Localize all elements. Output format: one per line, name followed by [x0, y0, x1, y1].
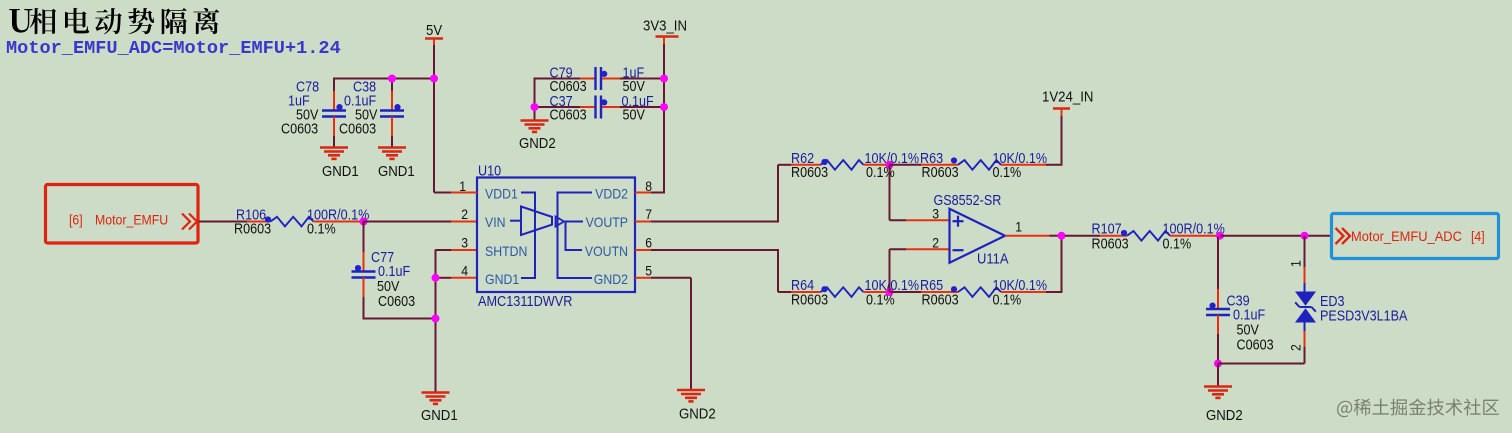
pin R107 right	[1170, 235, 1217, 237]
junction node B	[886, 288, 894, 296]
wire pin3	[436, 249, 452, 251]
power 5V symbol	[425, 22, 443, 48]
pin R64 right	[864, 291, 887, 293]
svg-text:GND2: GND2	[679, 406, 716, 423]
U10 internal amp triangle	[521, 207, 552, 236]
capacitor C79	[596, 67, 608, 90]
wire 3V3 vertical	[663, 44, 665, 193]
wire SHTDN down	[435, 250, 437, 393]
svg-text:3: 3	[461, 236, 468, 251]
resistor R107	[1121, 230, 1170, 241]
resistor R63	[951, 157, 1001, 169]
wire pin5 to gnd	[651, 277, 691, 279]
svg-text:3: 3	[932, 207, 939, 222]
svg-text:0.1%: 0.1%	[307, 222, 336, 238]
svg-text:R0603: R0603	[791, 165, 828, 181]
svg-text:R0603: R0603	[922, 165, 959, 181]
wire nodeA to +	[890, 219, 907, 221]
svg-text:AMC1311DWVR: AMC1311DWVR	[478, 294, 572, 310]
pin U10.1 stub	[451, 192, 477, 194]
svg-text:R107: R107	[1092, 222, 1122, 238]
pin R62 left	[791, 164, 821, 166]
svg-text:GND1: GND1	[322, 163, 359, 180]
pin R64 left	[791, 291, 821, 293]
capacitor C38	[380, 104, 404, 117]
svg-text:5V: 5V	[426, 22, 442, 39]
pin R63 right	[1001, 164, 1046, 166]
svg-text:1V24_IN: 1V24_IN	[1042, 89, 1093, 106]
capacitor C37	[596, 96, 608, 119]
junction C37 left	[531, 103, 539, 111]
svg-text:50V: 50V	[1237, 323, 1260, 339]
diode ED3 PESD3V3L1BA	[1295, 283, 1316, 331]
svg-text:R0603: R0603	[1092, 237, 1129, 253]
svg-text:3V3_IN: 3V3_IN	[643, 18, 687, 35]
U10 internal iso triangle	[556, 217, 565, 227]
svg-text:50V: 50V	[623, 108, 646, 124]
junction C79 right	[660, 75, 668, 83]
svg-text:0.1uF: 0.1uF	[1233, 308, 1265, 324]
resistor R65	[951, 286, 1001, 297]
svg-text:C0603: C0603	[378, 294, 415, 310]
wire out to junction	[1050, 235, 1066, 237]
wire C39 bottom	[1217, 315, 1219, 334]
svg-text:6: 6	[645, 236, 652, 251]
capacitor C78	[322, 104, 346, 117]
svg-text:0.1%: 0.1%	[993, 293, 1022, 309]
svg-text:R0603: R0603	[234, 222, 271, 238]
U10 internal voutp link	[566, 222, 584, 251]
wire R107 to out junction	[1217, 235, 1222, 237]
port Motor_EMFU_ADC	[1332, 214, 1499, 259]
ground GND1 under C38	[378, 148, 406, 159]
pin R65 right	[1001, 291, 1046, 293]
wire 5V vertical	[433, 45, 435, 193]
wire r64 left	[778, 291, 791, 293]
pin R106 right	[314, 221, 363, 223]
capacitor C77	[352, 265, 376, 278]
junction node ED3	[1301, 232, 1309, 240]
junction C39 gnd	[1214, 360, 1222, 368]
svg-text:Motor_EMFU_ADC: Motor_EMFU_ADC	[1351, 228, 1462, 244]
svg-text:VDD2: VDD2	[595, 186, 628, 202]
svg-text:0.1%: 0.1%	[993, 165, 1022, 181]
pin R63 left	[921, 164, 958, 166]
IC U10 body	[477, 178, 635, 293]
svg-text:1: 1	[1289, 260, 1304, 267]
svg-text:0.1uF: 0.1uF	[378, 264, 410, 280]
svg-text:GND1: GND1	[485, 271, 519, 287]
wire pin7 jog	[651, 165, 778, 222]
U10 internal vin dash	[510, 220, 521, 222]
svg-text:U10: U10	[478, 164, 501, 180]
svg-text:C0603: C0603	[281, 122, 318, 138]
wire ED3 top	[1304, 236, 1306, 267]
svg-text:U11A: U11A	[977, 252, 1009, 268]
watermark	[1337, 398, 1499, 417]
svg-text:4: 4	[461, 264, 468, 279]
svg-text:[6]: [6]	[69, 212, 83, 228]
svg-text:GS8552-SR: GS8552-SR	[934, 193, 1002, 209]
wire r63 right	[1046, 164, 1063, 166]
pin U11A.1	[1005, 235, 1050, 237]
port Motor_EMFU	[46, 185, 199, 244]
wire gnd horizontal	[1218, 363, 1305, 365]
wire nodeB up	[889, 249, 891, 292]
wire C38 top	[391, 78, 393, 92]
junction C37 right	[660, 103, 668, 111]
U10 internal right rail	[558, 193, 593, 279]
wire r65 right feedback	[1046, 291, 1062, 293]
wire out to R107	[1065, 235, 1100, 237]
title text U相电动势隔离	[9, 8, 219, 34]
U10 internal left rail	[521, 193, 535, 279]
ground GND1 under C78	[320, 148, 348, 159]
svg-text:Motor_EMFU_ADC=Motor_EMFU+1.24: Motor_EMFU_ADC=Motor_EMFU+1.24	[6, 38, 341, 59]
svg-text:7: 7	[645, 207, 652, 222]
pin R107 left	[1100, 235, 1127, 237]
capacitor C39	[1206, 303, 1230, 316]
junction pin4	[432, 274, 440, 282]
wire pin4	[436, 277, 452, 279]
wire 5V to caps horizontal	[333, 78, 434, 80]
svg-text:PESD3V3L1BA: PESD3V3L1BA	[1320, 308, 1408, 324]
svg-text:GND2: GND2	[594, 271, 628, 287]
power 3V3_IN	[643, 18, 687, 47]
pin U11A.2	[906, 248, 950, 250]
svg-text:2: 2	[1289, 344, 1304, 351]
svg-text:2: 2	[461, 207, 468, 222]
svg-text:GND1: GND1	[378, 163, 415, 180]
wire nodeA down	[889, 165, 891, 221]
svg-text:C0603: C0603	[1237, 338, 1274, 354]
wire C78 top	[333, 78, 335, 92]
wire C77 bottom	[363, 278, 365, 298]
wire gnd2 left vertical	[534, 78, 536, 121]
wire C38 bottom	[391, 117, 393, 137]
junction at 5V line	[430, 75, 438, 83]
svg-text:2: 2	[932, 236, 939, 251]
svg-text:GND2: GND2	[519, 135, 556, 152]
wire ED3 bottom	[1304, 331, 1306, 347]
wire port to R106	[199, 221, 247, 223]
wire nodeB to -	[890, 248, 907, 250]
svg-text:C0603: C0603	[339, 122, 376, 138]
wire r64-j	[886, 291, 890, 293]
pin U10.2	[451, 221, 477, 223]
ground GND2 under U10	[677, 390, 705, 401]
wire 1V24 vertical	[1061, 116, 1063, 164]
svg-text:VIN: VIN	[485, 214, 506, 230]
svg-text:GND2: GND2	[1206, 407, 1243, 424]
wire C79 line	[535, 78, 581, 80]
svg-text:C0603: C0603	[550, 79, 587, 95]
wire C78 bottom	[333, 117, 335, 137]
svg-text:R0603: R0603	[791, 293, 828, 309]
svg-text:50V: 50V	[377, 279, 400, 295]
junction at C38 top	[388, 75, 396, 83]
ground GND2 left	[521, 121, 549, 132]
svg-text:0.1%: 0.1%	[1163, 237, 1192, 253]
junction node A	[886, 161, 894, 169]
pin R65 left	[921, 291, 958, 293]
wire C77 top	[363, 222, 365, 253]
junction C77 gnd	[432, 315, 440, 323]
wire pin6 jog	[651, 250, 778, 292]
svg-text:[4]: [4]	[1471, 228, 1485, 244]
pin U10.7 stub	[635, 221, 651, 223]
wire 5V corner to pin1	[434, 192, 451, 194]
wire r62-j	[886, 164, 890, 166]
pin R106 left	[247, 221, 271, 223]
pin U10.8 stub	[635, 192, 651, 194]
ground GND1 main	[422, 393, 450, 404]
wire C39 to gnd	[1217, 364, 1219, 387]
svg-text:R0603: R0603	[922, 293, 959, 309]
pin U10.5 stub	[635, 277, 651, 279]
power 1V24_IN	[1042, 89, 1093, 118]
svg-text:50V: 50V	[623, 79, 646, 95]
wire r63 left	[890, 164, 922, 166]
wire r62 left	[778, 164, 791, 166]
svg-text:1: 1	[1015, 220, 1022, 235]
svg-text:Motor_EMFU: Motor_EMFU	[95, 212, 168, 228]
svg-text:GND1: GND1	[421, 407, 458, 424]
junction node OUT2	[1216, 232, 1224, 240]
wire to U10 pin2	[364, 221, 452, 223]
wire to port	[1220, 235, 1331, 237]
svg-text:VOUTP: VOUTP	[586, 214, 628, 230]
svg-text:SHTDN: SHTDN	[485, 243, 527, 259]
op-amp U11A	[950, 209, 1006, 263]
pin U10.6 stub	[635, 249, 651, 251]
resistor R106	[265, 216, 314, 226]
resistor R64	[821, 286, 864, 297]
svg-text:5: 5	[645, 264, 652, 279]
svg-text:100R/0.1%: 100R/0.1%	[1163, 222, 1226, 238]
junction node OUT	[1058, 232, 1066, 240]
junction node at C77	[360, 218, 368, 226]
svg-text:VOUTN: VOUTN	[585, 243, 628, 259]
pin R62 right	[864, 164, 887, 166]
svg-text:VDD1: VDD1	[485, 186, 518, 202]
pin U11A.3	[906, 219, 950, 221]
ground GND2 right	[1204, 387, 1232, 398]
svg-text:C0603: C0603	[550, 108, 587, 124]
wire C39 top	[1217, 237, 1219, 289]
resistor R62	[821, 159, 864, 170]
wire C37 line	[535, 106, 581, 108]
wire r65 left	[890, 291, 922, 293]
